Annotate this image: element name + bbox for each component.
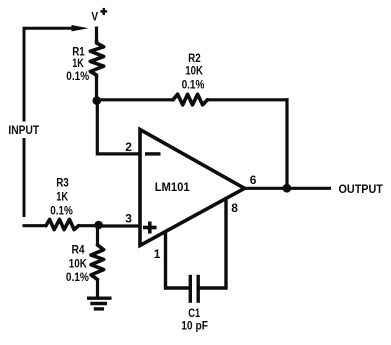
node V+ [91, 8, 107, 24]
wire [285, 98, 288, 188]
svg-text:0.1%: 0.1% [66, 270, 89, 284]
resistor R2 [173, 94, 208, 105]
resistor R4 [91, 225, 104, 298]
svg-text:2: 2 [125, 140, 132, 154]
svg-text:V: V [91, 10, 98, 24]
svg-text:8: 8 [231, 201, 238, 215]
wire [97, 100, 140, 154]
label R3 value [50, 176, 73, 218]
svg-text:0.1%: 0.1% [182, 77, 205, 91]
svg-text:0.1%: 0.1% [50, 203, 73, 217]
wire [95, 76, 98, 101]
wire [243, 187, 331, 190]
svg-text:LM101: LM101 [155, 180, 190, 194]
svg-text:1K: 1K [72, 56, 84, 70]
svg-text:R3: R3 [56, 176, 69, 190]
label R4 value [66, 243, 89, 284]
resistor R1 [90, 41, 103, 77]
non-inverting input marker [143, 222, 157, 234]
svg-text:10 pF: 10 pF [181, 319, 208, 333]
svg-text:0.1%: 0.1% [66, 69, 89, 83]
svg-text:OUTPUT: OUTPUT [339, 182, 384, 196]
label R1 value [66, 44, 89, 83]
junction dot [93, 96, 102, 105]
wire [24, 28, 73, 121]
label R2 value [182, 51, 205, 92]
wire [97, 98, 174, 101]
wire [99, 224, 141, 227]
wire [224, 199, 227, 290]
svg-text:3: 3 [125, 212, 132, 226]
wire [166, 232, 190, 289]
arrow to V+ [72, 25, 89, 31]
wire [95, 27, 98, 43]
junction dot [283, 184, 292, 193]
wire [78, 224, 100, 227]
op-amp U1 LM101 [140, 130, 245, 246]
svg-text:1: 1 [154, 247, 161, 261]
wire [23, 224, 48, 227]
capacitor C1 [190, 275, 198, 303]
wire [207, 98, 289, 101]
inverting input marker [145, 152, 161, 155]
svg-text:1K: 1K [56, 189, 68, 203]
svg-text:10K: 10K [185, 63, 203, 77]
resistor R3 [46, 219, 79, 229]
svg-text:6: 6 [250, 173, 257, 187]
ground [87, 298, 112, 309]
svg-text:10K: 10K [69, 256, 87, 270]
wire [23, 138, 26, 217]
junction dot [94, 221, 103, 230]
svg-text:INPUT: INPUT [8, 123, 39, 137]
wire [198, 286, 227, 289]
label C1 value [181, 306, 208, 333]
svg-text:R4: R4 [71, 243, 84, 257]
